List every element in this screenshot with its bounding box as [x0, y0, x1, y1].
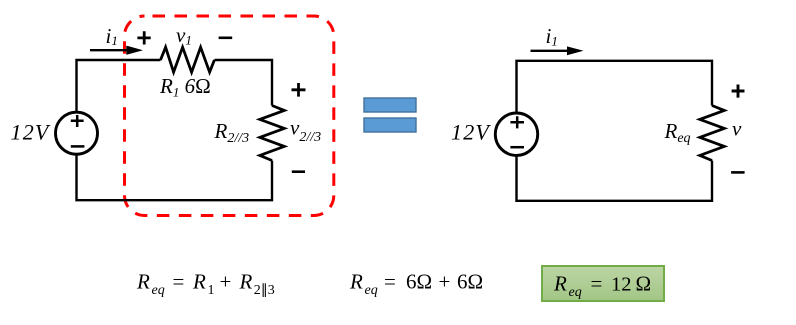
- minus polarity of v, right circuit: [731, 171, 745, 174]
- plus polarity of v, right circuit: [732, 85, 745, 98]
- wire: left branch and top wire of right circuit: [517, 61, 713, 114]
- voltage source V1 (12V), left circuit: [56, 112, 98, 154]
- boundary of simplified section (red dashed box): [125, 16, 334, 216]
- svg-text:=: =: [173, 270, 185, 294]
- minus polarity of v2//3: [292, 170, 305, 173]
- svg-text:R2//3: R2//3: [214, 119, 250, 146]
- svg-text:Ω: Ω: [636, 272, 652, 296]
- svg-text:v: v: [732, 117, 742, 141]
- svg-text:=: =: [384, 270, 396, 294]
- current arrow i1, right circuit: [531, 46, 584, 55]
- svg-text:i1: i1: [106, 24, 118, 48]
- svg-text:2∥3: 2∥3: [254, 283, 275, 298]
- equivalence sign: bottom blue bar: [364, 118, 416, 132]
- svg-text:eq: eq: [569, 285, 582, 300]
- equivalence sign: top blue bar: [364, 98, 416, 112]
- svg-text:R: R: [239, 270, 253, 294]
- svg-text:v2//3: v2//3: [290, 116, 321, 146]
- svg-text:eq: eq: [152, 283, 165, 298]
- svg-text:R: R: [192, 270, 206, 294]
- svg-text:6Ω: 6Ω: [457, 270, 483, 294]
- wire: bottom loop of right circuit: [517, 155, 713, 200]
- svg-text:12V: 12V: [451, 120, 491, 145]
- equation 3: Req = 12 ohm: [553, 272, 651, 301]
- wire: left branch from source top up to top-left corner, left circuit: [77, 60, 161, 113]
- plus polarity of v2//3: [292, 83, 306, 97]
- voltage source V2 (12V), right circuit: [495, 113, 537, 155]
- minus polarity of v1: [219, 36, 233, 39]
- svg-text:+: +: [439, 270, 451, 294]
- resistor R2//3 (vertical zigzag), left circuit: [260, 106, 285, 161]
- current arrow i1, left circuit: [90, 46, 143, 55]
- resistor Req (vertical zigzag), right circuit: [700, 106, 725, 161]
- equation 1: Req = R1 + R2||3: [136, 270, 275, 299]
- svg-text:1: 1: [208, 283, 215, 298]
- svg-text:R: R: [349, 270, 363, 294]
- svg-text:+: +: [220, 270, 232, 294]
- svg-text:R: R: [136, 270, 150, 294]
- equation 2: Req = 6ohm + 6ohm: [349, 270, 483, 299]
- wire: top-right segment from R1 to top-right corner then down to R2//3, left circuit: [214, 60, 272, 106]
- svg-text:=: =: [591, 272, 603, 296]
- svg-text:12V: 12V: [11, 120, 51, 145]
- svg-text:Req: Req: [664, 119, 691, 146]
- svg-text:12: 12: [611, 274, 632, 296]
- wire: bottom loop from R2//3 down, across bottom, up to source bottom, left circuit: [77, 154, 273, 200]
- svg-text:6Ω: 6Ω: [406, 270, 432, 294]
- svg-text:R1 6Ω: R1 6Ω: [159, 74, 211, 100]
- svg-text:R: R: [553, 272, 567, 296]
- plus polarity of v1: [137, 31, 150, 44]
- resistor R1 (zigzag), left circuit: [161, 47, 215, 72]
- svg-text:v1: v1: [176, 23, 192, 48]
- svg-text:eq: eq: [365, 283, 378, 298]
- svg-text:i1: i1: [546, 24, 558, 48]
